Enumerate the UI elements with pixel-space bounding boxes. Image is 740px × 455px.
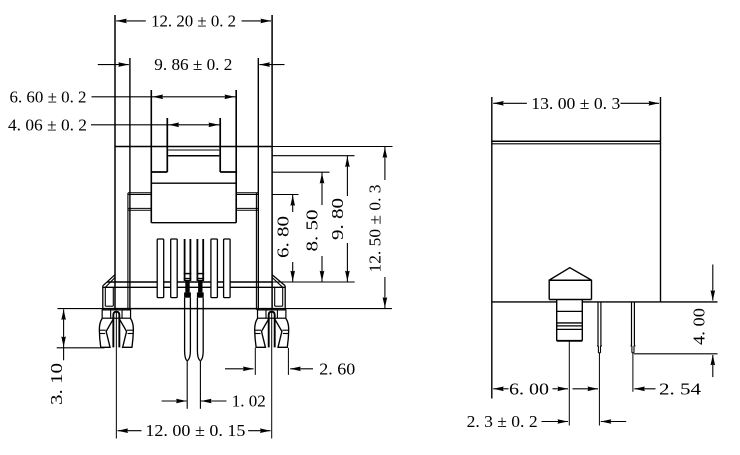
left latch post xyxy=(99,310,133,348)
6.60 wall left / extension xyxy=(150,90,152,223)
dim 6.00 xyxy=(493,379,568,398)
side body bottom line right + 4.00 top reference xyxy=(582,301,717,303)
key slot inner line 2 xyxy=(168,155,219,157)
side pin A xyxy=(597,302,602,353)
step shoulder right (y=172) xyxy=(220,171,237,173)
dim 2.60 xyxy=(225,348,355,379)
dim 2.54 xyxy=(573,379,702,398)
left view body right edge xyxy=(271,15,273,310)
opening right wall inner line xyxy=(255,193,257,310)
right wing inner chamfer xyxy=(272,278,283,288)
12.00 left extension line xyxy=(115,313,117,439)
key slot inner line 1 xyxy=(168,149,219,151)
dim 4.06 +-0.2 xyxy=(8,115,220,134)
side body top line xyxy=(492,140,661,142)
svg-text:2. 3 ± 0. 2: 2. 3 ± 0. 2 xyxy=(467,412,538,431)
6.60 wall right / extension xyxy=(235,90,237,223)
side body top inner line xyxy=(492,143,661,145)
side body bottom line left xyxy=(492,301,557,303)
right wing pocket xyxy=(275,287,283,306)
dim 13.00 +-0.3 xyxy=(493,94,659,113)
svg-text:3. 10: 3. 10 xyxy=(47,363,66,405)
svg-text:9. 86 ± 0. 2: 9. 86 ± 0. 2 xyxy=(154,55,232,74)
svg-text:6. 00: 6. 00 xyxy=(509,379,549,398)
bottom plane line xyxy=(58,308,392,310)
key slot right wall / 4.06 extension xyxy=(219,118,221,172)
dim 12.00 +-0.15 xyxy=(118,421,271,440)
lower housing line xyxy=(103,286,285,288)
side body right edge / 13.00 extension xyxy=(660,97,662,302)
svg-text:12. 50 ± 0. 3: 12. 50 ± 0. 3 xyxy=(366,185,385,273)
svg-text:6. 60 ± 0. 2: 6. 60 ± 0. 2 xyxy=(10,87,87,106)
dim 9.80 xyxy=(328,156,350,282)
opening right wall / 9.86 extension xyxy=(257,58,259,310)
9.80 top reference line xyxy=(272,155,354,157)
left wing pocket xyxy=(105,287,113,306)
opening left wall / 9.86 extension xyxy=(129,58,131,310)
peg center / 2.3 extension line xyxy=(568,341,570,426)
left shelf lower double line xyxy=(128,208,151,210)
6.80 top reference line xyxy=(272,194,298,196)
right shelf lines xyxy=(236,193,258,195)
svg-text:1. 02: 1. 02 xyxy=(232,392,266,411)
left shelf lines xyxy=(128,193,151,195)
latch peg hat xyxy=(549,268,591,300)
dim 3.10 xyxy=(47,309,105,405)
svg-text:2. 60: 2. 60 xyxy=(319,359,355,378)
right latch post xyxy=(255,310,289,348)
12.00 right extension line xyxy=(271,313,273,439)
solder pins with 1.02 extension lines xyxy=(185,298,204,409)
dim 2.3 +-0.2 xyxy=(467,412,627,431)
left view body top line + 12.50 extension xyxy=(115,146,393,148)
svg-text:4. 06 ± 0. 2: 4. 06 ± 0. 2 xyxy=(8,115,87,134)
pin B extension line xyxy=(632,353,634,392)
left wing outer chamfer xyxy=(103,275,115,286)
side pin B xyxy=(630,302,635,353)
right wing outer chamfer xyxy=(272,275,285,286)
svg-text:6. 80: 6. 80 xyxy=(273,216,292,258)
step shoulder left (y=172) xyxy=(151,171,168,173)
right shelf lower double line xyxy=(236,208,258,210)
left wing outer edge xyxy=(102,286,104,310)
svg-text:12. 20 ± 0. 2: 12. 20 ± 0. 2 xyxy=(151,11,236,30)
8.50 top reference line xyxy=(272,171,329,173)
left view body left edge xyxy=(114,15,116,310)
dim 12.20 +-0.2 xyxy=(116,11,271,30)
middle contact pins (dark) xyxy=(184,239,204,298)
contact base line / dim bottom reference xyxy=(107,281,355,283)
opening left wall inner line xyxy=(127,193,129,310)
left wing inner chamfer xyxy=(105,278,115,288)
svg-text:9. 80: 9. 80 xyxy=(328,198,347,240)
4.00 bottom reference line xyxy=(634,353,718,355)
dim 12.50 +-0.3 xyxy=(366,147,388,309)
dim 8.50 xyxy=(303,172,325,282)
dim 9.86 +-0.2 xyxy=(98,55,285,74)
right wing outer edge xyxy=(284,286,286,310)
dim 4.00 xyxy=(690,265,715,378)
side body left edge / 13.00+6.00 extension xyxy=(491,97,493,399)
key slot left wall / 4.06 extension xyxy=(166,118,168,172)
dim 6.60 +-0.2 xyxy=(10,87,237,106)
dim 1.02 xyxy=(162,392,266,411)
contact separator bars xyxy=(157,239,230,298)
latch peg cylinder xyxy=(557,300,583,341)
svg-text:12. 00 ± 0. 15: 12. 00 ± 0. 15 xyxy=(145,421,245,440)
dim 6.80 xyxy=(273,195,295,283)
svg-text:2. 54: 2. 54 xyxy=(659,379,701,398)
svg-text:4. 00: 4. 00 xyxy=(690,308,709,345)
svg-text:13. 00 ± 0. 3: 13. 00 ± 0. 3 xyxy=(531,94,620,113)
svg-text:8. 50: 8. 50 xyxy=(303,210,322,252)
cavity top line xyxy=(151,182,236,184)
pin A extension line xyxy=(598,353,600,426)
cavity bottom line xyxy=(151,222,236,224)
